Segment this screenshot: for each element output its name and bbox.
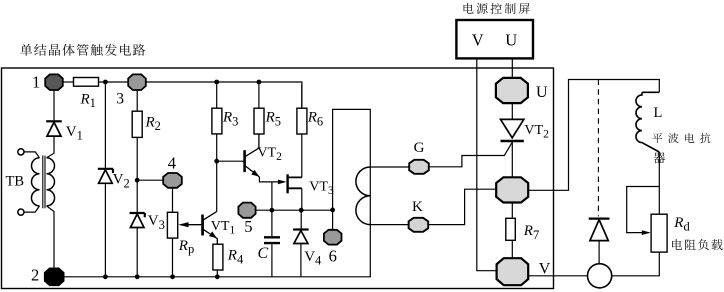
resistor R4 <box>213 244 223 270</box>
wire: TB secondary down to terminal 2 <box>47 206 55 269</box>
pulse transformer secondary winding <box>356 167 370 225</box>
junction: bus / Rp branch <box>170 274 175 279</box>
junction: bus / V3 branch <box>135 274 140 279</box>
wire: terminal 3 down to R2 <box>136 90 138 111</box>
wire: Rd bottom to ammeter <box>612 252 660 276</box>
resistor R1 <box>74 78 99 87</box>
power control panel box <box>456 20 533 58</box>
wire: secondary to terminal G <box>370 166 409 168</box>
svg-text:TB: TB <box>6 173 25 189</box>
wire: R1 node down to V2 <box>104 84 106 167</box>
title label: unijunction-transistor trigger circuit <box>20 44 145 56</box>
wire: top rail from terminal 3 to R6 <box>146 82 302 108</box>
wire: terminal 1 to R1 <box>63 81 74 83</box>
terminal K <box>409 218 429 232</box>
wire: R7 to terminal V <box>511 240 513 258</box>
terminal 2 <box>45 268 64 285</box>
diode V1 <box>46 120 62 122</box>
wire: node to terminal 4 <box>140 179 164 181</box>
wire: R4 to bus <box>216 270 218 274</box>
wire: dashed branch to freewheel diode <box>597 80 599 217</box>
wire: gate node down to C node <box>271 182 273 210</box>
wire: Rd rheostat tap loop <box>627 187 660 233</box>
wire: node to V4 <box>300 210 302 228</box>
junction: top rail to R5 <box>257 80 262 85</box>
transformer TB core <box>43 156 45 209</box>
wire: R1 to terminal 3 <box>99 81 129 83</box>
wire: cathode node to load top rail <box>528 80 659 191</box>
terminal 6 <box>324 230 342 245</box>
ammeter / meter circle <box>588 264 612 288</box>
svg-text:1: 1 <box>32 73 40 92</box>
svg-text:U: U <box>536 84 548 101</box>
terminal V <box>497 258 529 285</box>
junction: R2/V3/terminal-4 node <box>135 178 140 183</box>
rheostat Rd body <box>651 214 667 252</box>
label: smoothing reactor (line 2) <box>654 152 665 163</box>
thyristor VT2 <box>501 119 524 137</box>
diode V4 <box>293 228 309 230</box>
svg-text:3: 3 <box>116 91 124 108</box>
rheostat Rd wiper arrow <box>642 230 651 235</box>
svg-text:K: K <box>412 199 423 215</box>
transistor VT3 (FET) <box>286 174 288 193</box>
wire: thyristor cathode down <box>511 141 513 177</box>
wire: C leads <box>271 210 273 277</box>
terminal: thyristor cathode node <box>496 177 528 202</box>
svg-text:6: 6 <box>329 246 337 265</box>
svg-text:5: 5 <box>244 217 252 236</box>
wire: V4 to bus <box>300 244 302 277</box>
resistor R6 <box>297 108 307 134</box>
transformer TB primary terminal (bottom) <box>18 209 24 215</box>
wire: top rail corner to R6 <box>301 84 303 108</box>
potentiometer Rp wiper arrow from VT1 base <box>188 220 203 235</box>
potentiometer Rp body <box>167 212 177 238</box>
wire: top rail to R3 <box>216 84 218 108</box>
wire: terminal 4 down to Rp <box>172 188 174 213</box>
svg-text:G: G <box>414 140 425 156</box>
zener diode V2 <box>98 169 113 173</box>
label: power control panel <box>464 3 530 14</box>
wire: top rail to R5 <box>258 84 260 108</box>
zener diode V3 <box>130 213 145 217</box>
wire: VT2 base to R3 node <box>217 160 244 162</box>
junction: V4 node <box>299 208 304 213</box>
wire: ammeter to terminal V <box>528 275 587 277</box>
wire: R2 down to V3 <box>136 137 138 212</box>
wire: V1 to TB secondary <box>47 136 55 158</box>
svg-text:L: L <box>654 105 663 121</box>
wire: U terminal to thyristor VT2 anode <box>511 103 513 119</box>
wire: V2 to bus <box>104 183 106 274</box>
wire: VT3 source down to output node <box>301 188 303 210</box>
wire: V phase from panel down and right to terminal V <box>477 58 498 270</box>
svg-text:V: V <box>539 261 551 278</box>
wire: VT1 base-one up / base-two down to R4 <box>204 212 218 245</box>
wire: TB primary bottom lead <box>24 206 40 212</box>
svg-text:4: 4 <box>168 153 176 172</box>
wire: U phase from panel to terminal U <box>511 58 513 78</box>
wire: node to terminal 6 <box>332 210 334 230</box>
wire: G to thyristor gate <box>429 142 513 167</box>
junction: R3 / VT2 base node <box>214 159 219 164</box>
junction: R1 output node <box>103 80 108 85</box>
capacitor C <box>264 237 280 243</box>
smoothing reactor L winding <box>636 92 659 152</box>
wire: freewheel diode to ammeter <box>598 241 600 264</box>
terminal 1 <box>45 74 63 90</box>
wire: common bottom bus and pulse transformer primary loop <box>64 109 371 276</box>
junction: C node <box>270 208 275 213</box>
resistor R2 <box>132 111 142 137</box>
wire: terminal 1 down to V1 <box>53 90 55 120</box>
wire: L to Rd <box>658 152 660 214</box>
svg-text:V: V <box>472 30 484 49</box>
wire: VT2 emitter to VT3 gate <box>259 177 284 182</box>
transistor VT1 (UJT) <box>201 215 204 236</box>
terminal G <box>409 160 429 174</box>
label: smoothing reactor (line 1) <box>652 133 710 143</box>
wire: Rp to bus <box>172 238 174 274</box>
trigger circuit enclosure box <box>2 68 554 289</box>
wire: V3 to bus <box>136 228 138 275</box>
terminal 3 <box>128 74 146 90</box>
junction: bus / R4 branch <box>215 274 220 279</box>
wire: K to thyristor cathode node <box>428 189 496 224</box>
resistor R5 <box>254 108 264 134</box>
resistor R3 <box>212 108 222 134</box>
transformer TB primary terminal (top) <box>18 149 24 155</box>
svg-text:U: U <box>505 30 517 49</box>
terminal U (panel output) <box>496 78 528 103</box>
wire: VT1 to R3/VT2-base node <box>216 134 218 212</box>
svg-text:C: C <box>258 245 269 262</box>
junction: bus / V2 branch <box>103 274 108 279</box>
freewheel diode V <box>589 218 610 220</box>
wire: cathode node to R7 <box>511 203 513 219</box>
transformer TB primary winding <box>31 158 39 206</box>
svg-text:2: 2 <box>31 265 39 284</box>
resistor R7 <box>506 218 516 240</box>
wire: secondary to terminal K <box>370 224 408 226</box>
junction: top rail to R3 <box>214 80 219 85</box>
label: resistive load <box>672 239 723 250</box>
transformer TB secondary winding <box>47 158 55 206</box>
junction: pulse transformer primary node <box>330 208 335 213</box>
wire: VT3 drain/source leads <box>289 177 302 188</box>
wire: VT2 collector to R5 / emitter <box>246 134 260 177</box>
transistor VT2 base bar <box>243 150 246 172</box>
terminal 5 <box>238 203 255 218</box>
wire: R6 to VT3 drain <box>301 134 303 177</box>
terminal 4 <box>163 173 182 188</box>
wire: output node row <box>255 209 333 211</box>
wire: TB primary top lead <box>24 152 40 158</box>
